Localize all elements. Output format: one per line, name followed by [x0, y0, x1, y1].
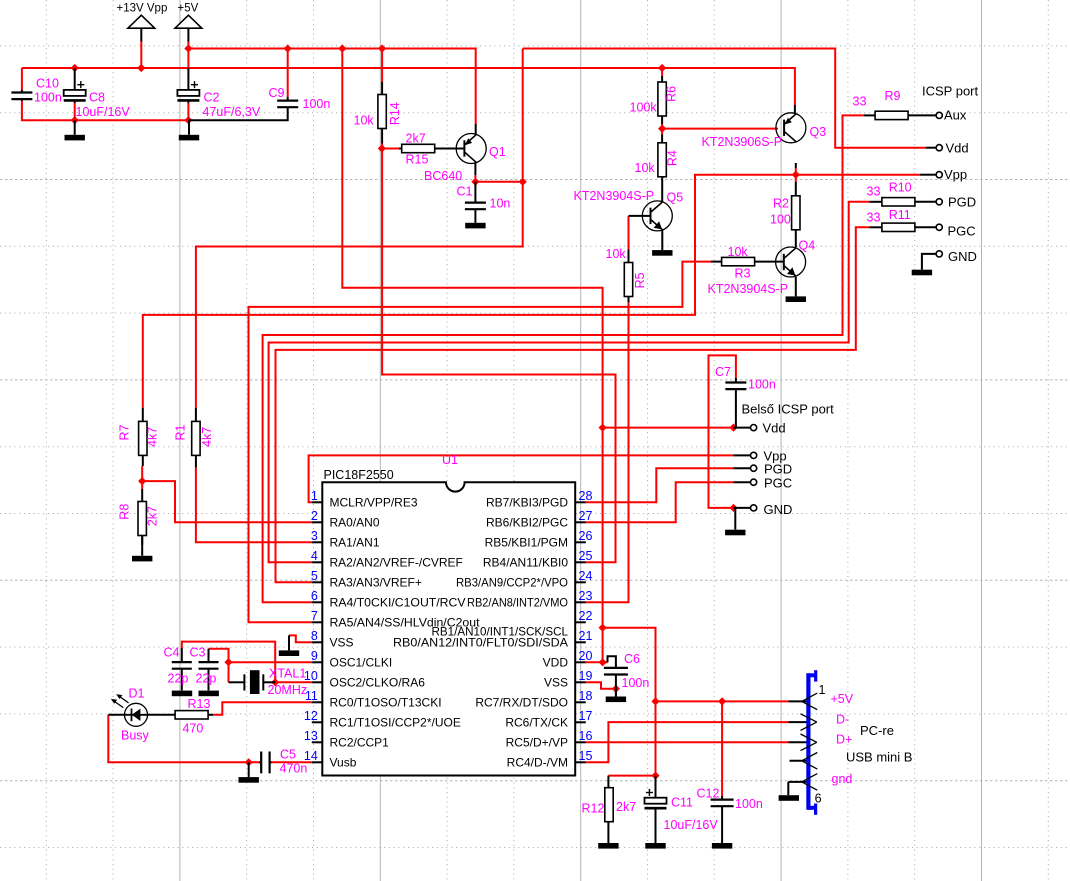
svg-text:R4: R4: [666, 150, 680, 166]
svg-text:RB0/AN12/INT0/FLT0/SDI/SDA: RB0/AN12/INT0/FLT0/SDI/SDA: [393, 636, 568, 650]
svg-text:33: 33: [867, 185, 881, 199]
svg-text:10k: 10k: [606, 247, 627, 261]
svg-text:100n: 100n: [34, 91, 62, 105]
svg-text:24: 24: [579, 569, 593, 583]
svg-text:R6: R6: [665, 86, 679, 102]
svg-text:R14: R14: [388, 102, 402, 125]
svg-text:1: 1: [311, 489, 318, 503]
svg-text:OSC2/CLKO/RA6: OSC2/CLKO/RA6: [330, 676, 426, 690]
svg-text:GND: GND: [948, 249, 977, 264]
svg-text:22p: 22p: [168, 672, 189, 686]
svg-text:Q5: Q5: [667, 191, 684, 205]
svg-text:20: 20: [579, 649, 593, 663]
svg-text:4: 4: [311, 549, 318, 563]
svg-text:C9: C9: [269, 86, 285, 100]
svg-text:C6: C6: [624, 652, 640, 666]
svg-text:470: 470: [183, 722, 204, 736]
svg-text:RA2/AN2/VREF-/CVREF: RA2/AN2/VREF-/CVREF: [330, 556, 463, 570]
svg-text:D+: D+: [836, 733, 852, 747]
svg-text:R5: R5: [633, 272, 647, 288]
svg-text:21: 21: [579, 629, 593, 643]
svg-text:10k: 10k: [354, 114, 375, 128]
svg-text:26: 26: [579, 529, 593, 543]
svg-text:RC2/CCP1: RC2/CCP1: [330, 736, 390, 750]
svg-text:2: 2: [311, 509, 318, 523]
svg-text:470n: 470n: [280, 762, 308, 776]
svg-text:19: 19: [579, 669, 593, 683]
svg-text:PGC: PGC: [764, 476, 792, 491]
svg-text:PGD: PGD: [764, 462, 792, 477]
svg-text:18: 18: [579, 689, 593, 703]
svg-text:Q3: Q3: [810, 125, 827, 139]
svg-text:Q4: Q4: [799, 239, 816, 253]
svg-text:Vdd: Vdd: [763, 421, 786, 436]
svg-text:7: 7: [311, 609, 318, 623]
svg-text:C11: C11: [671, 796, 693, 810]
svg-text:RA4/T0CKI/C1OUT/RCV: RA4/T0CKI/C1OUT/RCV: [330, 596, 466, 610]
svg-text:100n: 100n: [303, 97, 331, 111]
svg-text:RC6/TX/CK: RC6/TX/CK: [505, 716, 568, 730]
svg-text:RC1/T1OSI/CCP2*/UOE: RC1/T1OSI/CCP2*/UOE: [330, 716, 461, 730]
svg-text:6: 6: [815, 792, 822, 806]
svg-text:RB6/KBI2/PGC: RB6/KBI2/PGC: [486, 516, 568, 530]
svg-text:D1: D1: [129, 687, 145, 701]
svg-text:RB3/AN9/CCP2*/VPO: RB3/AN9/CCP2*/VPO: [456, 576, 568, 590]
svg-text:R9: R9: [885, 89, 901, 103]
svg-text:100n: 100n: [622, 676, 650, 690]
svg-text:4k7: 4k7: [146, 427, 160, 447]
svg-text:R2: R2: [773, 197, 789, 211]
svg-text:33: 33: [867, 211, 881, 225]
svg-text:RA0/AN0: RA0/AN0: [330, 516, 380, 530]
svg-text:KT2N3904S-P: KT2N3904S-P: [574, 189, 655, 203]
svg-text:10uF/16V: 10uF/16V: [664, 818, 719, 832]
svg-text:Belső ICSP port: Belső ICSP port: [742, 402, 835, 417]
svg-text:Vpp: Vpp: [944, 167, 967, 182]
svg-text:RA1/AN1: RA1/AN1: [330, 536, 380, 550]
svg-text:RC4/D-/VM: RC4/D-/VM: [507, 756, 568, 770]
svg-text:RB7/KBI3/PGD: RB7/KBI3/PGD: [486, 496, 568, 510]
svg-text:2k7: 2k7: [616, 800, 636, 814]
svg-text:VSS: VSS: [330, 636, 354, 650]
svg-text:100k: 100k: [630, 101, 658, 115]
svg-text:C8: C8: [89, 91, 105, 105]
svg-text:Vusb: Vusb: [330, 756, 357, 770]
svg-text:XTAL1: XTAL1: [269, 667, 306, 681]
svg-text:100n: 100n: [748, 378, 776, 392]
svg-text:C10: C10: [36, 77, 59, 91]
svg-text:6: 6: [311, 589, 318, 603]
svg-text:RC5/D+/VP: RC5/D+/VP: [506, 736, 568, 750]
svg-text:BC640: BC640: [424, 169, 462, 183]
svg-text:VDD: VDD: [543, 656, 569, 670]
svg-text:C3: C3: [190, 646, 206, 660]
svg-text:R3: R3: [735, 267, 751, 281]
svg-text:R15: R15: [406, 153, 429, 167]
svg-text:RB5/KBI1/PGM: RB5/KBI1/PGM: [485, 536, 568, 550]
svg-text:RB2/AN8/INT2/VMO: RB2/AN8/INT2/VMO: [467, 596, 568, 610]
svg-text:R11: R11: [889, 208, 911, 222]
svg-text:22: 22: [579, 609, 593, 623]
svg-text:Q1: Q1: [489, 145, 506, 159]
svg-text:17: 17: [579, 709, 593, 723]
svg-text:ICSP port: ICSP port: [922, 84, 979, 99]
svg-text:47uF/6,3V: 47uF/6,3V: [203, 105, 261, 119]
svg-text:16: 16: [579, 729, 593, 743]
svg-text:+5V: +5V: [178, 3, 199, 15]
svg-text:10k: 10k: [635, 161, 656, 175]
svg-text:OSC1/CLKI: OSC1/CLKI: [330, 656, 393, 670]
svg-text:2k7: 2k7: [146, 506, 160, 526]
svg-text:100: 100: [770, 213, 791, 227]
svg-text:12: 12: [304, 709, 318, 723]
svg-text:Busy: Busy: [121, 729, 150, 743]
svg-text:R12: R12: [582, 802, 605, 816]
svg-text:C4: C4: [164, 646, 180, 660]
svg-text:RC7/RX/DT/SDO: RC7/RX/DT/SDO: [475, 696, 568, 710]
svg-text:KT2N3906S-P: KT2N3906S-P: [702, 135, 783, 149]
svg-text:27: 27: [579, 509, 593, 523]
svg-text:PC-re: PC-re: [860, 723, 894, 738]
svg-text:C1: C1: [457, 185, 473, 199]
svg-text:1: 1: [819, 683, 826, 697]
svg-text:D-: D-: [836, 713, 849, 727]
svg-text:10k: 10k: [728, 245, 749, 259]
svg-text:Aux: Aux: [944, 108, 967, 123]
svg-text:RC0/T1OSO/T13CKI: RC0/T1OSO/T13CKI: [330, 696, 442, 710]
svg-text:Vdd: Vdd: [946, 141, 969, 156]
svg-text:C7: C7: [715, 365, 731, 379]
svg-text:15: 15: [579, 749, 593, 763]
svg-text:9: 9: [311, 649, 318, 663]
svg-text:gnd: gnd: [832, 772, 853, 786]
svg-text:5: 5: [311, 569, 318, 583]
svg-text:R10: R10: [889, 181, 912, 195]
svg-text:R8: R8: [117, 504, 131, 520]
svg-text:GND: GND: [764, 502, 793, 517]
svg-text:C5: C5: [280, 748, 296, 762]
svg-text:8: 8: [311, 629, 318, 643]
svg-text:3: 3: [311, 529, 318, 543]
svg-text:USB mini B: USB mini B: [846, 750, 912, 765]
svg-text:VSS: VSS: [544, 676, 568, 690]
svg-text:+13V Vpp: +13V Vpp: [117, 3, 168, 15]
svg-text:10n: 10n: [490, 197, 511, 211]
svg-text:R7: R7: [117, 424, 131, 440]
svg-text:28: 28: [579, 489, 593, 503]
svg-text:C2: C2: [204, 91, 220, 105]
svg-text:PGC: PGC: [948, 224, 976, 239]
svg-text:33: 33: [853, 95, 867, 109]
svg-text:23: 23: [579, 589, 593, 603]
svg-text:R1: R1: [174, 424, 188, 440]
svg-text:22p: 22p: [196, 672, 217, 686]
svg-text:C12: C12: [697, 787, 720, 801]
svg-text:10uF/16V: 10uF/16V: [76, 105, 131, 119]
svg-text:KT2N3904S-P: KT2N3904S-P: [708, 282, 789, 296]
svg-text:2k7: 2k7: [406, 132, 426, 146]
svg-text:RA3/AN3/VREF+: RA3/AN3/VREF+: [330, 576, 422, 590]
svg-text:PIC18F2550: PIC18F2550: [324, 468, 394, 482]
svg-text:PGD: PGD: [948, 195, 976, 210]
svg-text:MCLR/VPP/RE3: MCLR/VPP/RE3: [330, 496, 418, 510]
svg-text:20MHz: 20MHz: [268, 683, 308, 697]
svg-text:13: 13: [304, 729, 318, 743]
svg-text:4k7: 4k7: [200, 427, 214, 447]
svg-text:U1: U1: [442, 453, 458, 467]
svg-text:R13: R13: [188, 697, 211, 711]
svg-text:RB4/AN11/KBI0: RB4/AN11/KBI0: [483, 556, 568, 570]
svg-text:25: 25: [579, 549, 593, 563]
svg-text:100n: 100n: [735, 797, 763, 811]
svg-text:+5V: +5V: [831, 692, 854, 706]
